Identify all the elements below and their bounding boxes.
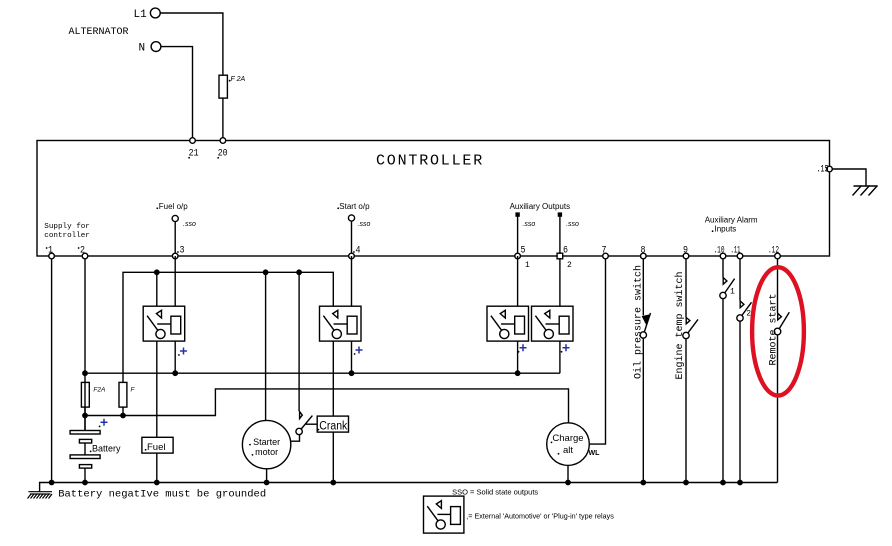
aux input 1 arm — [725, 279, 735, 293]
svg-text:,= External 'Automotive' or 'P: ,= External 'Automotive' or 'Plug-in' ty… — [466, 512, 614, 521]
junction ground battery — [83, 480, 87, 484]
remote start contact triangle — [778, 313, 782, 320]
svg-text:Starter: Starter — [253, 437, 280, 447]
svg-text:Crank: Crank — [319, 420, 347, 432]
fuse F2A — [219, 75, 227, 98]
svg-text:Supply for: Supply for — [44, 223, 90, 231]
svg-text:Oil pressure switch: Oil pressure switch — [633, 265, 645, 379]
terminal 21 — [190, 138, 196, 144]
junction ground terminal 1 — [49, 480, 53, 484]
fuse F (charge) — [119, 382, 127, 407]
svg-text:2: 2 — [80, 245, 85, 257]
junction ground aux2 — [738, 480, 742, 484]
svg-text:F: F — [131, 387, 136, 394]
plus mark K4 — [563, 344, 570, 351]
plus mark K2 — [356, 347, 363, 354]
oil pressure switch arm — [644, 313, 650, 332]
svg-text:controller: controller — [44, 232, 90, 240]
terminal 3 — [172, 253, 178, 259]
wire K1 coil to plus bus — [174, 341, 176, 373]
svg-text:.11: .11 — [731, 245, 741, 257]
junction ground starter — [264, 480, 268, 484]
svg-text:.12: .12 — [768, 245, 779, 257]
svg-text:8: 8 — [641, 245, 646, 257]
oil pressure switch arrow — [643, 315, 649, 323]
wire charge alt WL to terminal 7 — [589, 259, 605, 444]
starter motor M1 — [242, 420, 290, 468]
ground (top right) — [853, 186, 878, 196]
wire crank switch to crank label — [306, 423, 318, 425]
svg-text:CONTROLLER: CONTROLLER — [376, 153, 484, 170]
aux input 1 contact triangle — [723, 278, 727, 285]
terminal 11 — [737, 253, 743, 259]
junction ground temp switch — [684, 480, 688, 484]
engine temp switch contact triangle — [686, 318, 690, 324]
junction starter motor feed — [263, 270, 267, 274]
crank switch contact triangle — [300, 412, 303, 419]
wire remote start to ground bus — [777, 335, 779, 483]
charge alternator G1 — [547, 423, 590, 466]
svg-text:Inputs: Inputs — [715, 225, 737, 234]
junction plus bus at terminal2 wire — [83, 371, 87, 375]
svg-text:SSO = Solid state outputs: SSO = Solid state outputs — [452, 487, 538, 496]
svg-text:1: 1 — [730, 288, 735, 297]
wire oil pressure switch to ground bus — [642, 338, 644, 482]
relay K1 (fuel) — [143, 306, 185, 341]
svg-text:N: N — [139, 43, 146, 55]
fuse F2A (battery) — [81, 382, 89, 407]
svg-text:Battery: Battery — [92, 444, 121, 454]
svg-text:4: 4 — [356, 245, 361, 257]
remote start switch wire top — [777, 259, 779, 313]
crank switch pivot — [296, 428, 302, 434]
svg-text:F 2A: F 2A — [231, 76, 246, 83]
wire N to terminal 21 — [161, 47, 193, 141]
svg-text:Battery negatIve must be groun: Battery negatIve must be grounded — [58, 488, 266, 500]
wire terminal 15 to ground — [832, 169, 866, 186]
SSO output stub terminal 6 — [558, 213, 561, 216]
svg-text:Auxiliary Alarm: Auxiliary Alarm — [705, 216, 758, 225]
junction relay K1 switch feed — [155, 270, 159, 274]
svg-text:20: 20 — [218, 148, 228, 160]
junction plus bus K2 coil — [349, 371, 353, 375]
wire fuse F2A bottom — [84, 407, 86, 430]
svg-text:2: 2 — [567, 261, 572, 270]
alternator terminal L1 — [150, 8, 160, 18]
svg-text:.15: .15 — [817, 164, 829, 176]
wire K2 coil top from terminal 4 — [351, 256, 353, 306]
feed bus wire — [123, 272, 333, 382]
wire K4 coil to plus bus — [559, 341, 561, 373]
label supply for controller — [44, 223, 90, 240]
svg-text:Fuel o/p: Fuel o/p — [159, 202, 188, 211]
svg-text:Fuel: Fuel — [147, 442, 165, 453]
terminal 8 — [641, 253, 647, 259]
svg-text:.sso: .sso — [522, 221, 535, 228]
wire K3 coil top from terminal 5 — [517, 256, 519, 306]
svg-text:6: 6 — [563, 245, 568, 257]
crank label box — [317, 416, 348, 432]
terminal 4 — [349, 253, 355, 259]
terminal 20 — [220, 138, 226, 144]
junction ground charge alt — [566, 480, 570, 484]
svg-text:2: 2 — [746, 310, 751, 319]
red highlight ellipse (remote start) — [752, 267, 804, 395]
aux input 2 wire top — [739, 259, 741, 301]
wire sso stub to terminal 4 — [351, 221, 353, 256]
alternator terminal N — [151, 42, 161, 52]
engine temp switch pivot — [683, 332, 689, 338]
terminal 6 — [557, 253, 563, 259]
remote start arm — [779, 312, 789, 328]
SSO output stub terminal 3 — [172, 215, 178, 221]
wire engine temp switch to ground bus — [685, 339, 687, 483]
junction plus bus K1 coil — [173, 371, 177, 375]
wire starter to ground bus — [266, 469, 268, 483]
terminal 5 — [515, 253, 521, 259]
relay K4 (aux output 2) — [532, 306, 574, 341]
terminal 12 — [775, 253, 781, 259]
plus mark K1 — [180, 348, 187, 355]
wire sso stub to terminal 3 — [174, 222, 176, 256]
relay K2 (start) — [320, 306, 362, 341]
junction crank switch feed — [297, 270, 301, 274]
wire K1 switch to fuel solenoid — [156, 341, 158, 437]
junction battery bus fuse F — [121, 413, 125, 417]
relay K3 (aux output 1) — [487, 306, 529, 341]
terminal 9 — [683, 253, 689, 259]
aux input 2 arm — [742, 302, 752, 315]
wire K3 coil to plus bus — [517, 341, 519, 373]
aux input 1 wire top — [722, 259, 724, 278]
wire L1 to fuse F2A — [160, 13, 223, 75]
aux input 1 pivot — [720, 292, 726, 298]
plus mark battery — [101, 419, 108, 426]
svg-text:.sso: .sso — [183, 221, 196, 228]
oil pressure switch pivot — [640, 332, 646, 338]
remote start pivot — [774, 328, 781, 335]
svg-text:Auxiliary Outputs: Auxiliary Outputs — [510, 202, 570, 211]
crank switch arm — [301, 416, 312, 429]
junction ground crank — [331, 480, 335, 484]
wire aux input 1 to ground bus — [722, 299, 724, 483]
terminal 7 — [603, 253, 609, 259]
wire K1 coil top from terminal 3 — [174, 256, 176, 306]
controller box U1 — [37, 141, 830, 257]
svg-text:L1: L1 — [134, 9, 148, 21]
svg-text:1: 1 — [525, 261, 530, 270]
oil pressure switch wire top — [642, 259, 644, 316]
ground bus wire — [40, 483, 778, 492]
wire sso stub to terminal 6 — [559, 216, 561, 256]
wire crank to ground bus — [332, 432, 334, 482]
svg-text:F2A: F2A — [93, 387, 105, 394]
junction ground oil switch — [641, 480, 645, 484]
junction ground aux1 — [721, 480, 725, 484]
svg-text:9: 9 — [683, 245, 688, 257]
wire aux input 2 to ground bus — [739, 321, 741, 482]
plus bus wire (relay coils) — [85, 372, 560, 374]
svg-text:ALTERNATOR: ALTERNATOR — [69, 27, 129, 38]
svg-text:motor: motor — [255, 447, 278, 457]
wire fuel to ground bus — [156, 453, 158, 482]
fuel solenoid box — [142, 437, 173, 453]
wire terminal 2 to battery positive — [84, 259, 86, 431]
svg-text:Start o/p: Start o/p — [339, 202, 370, 211]
battery B1 — [70, 431, 100, 483]
terminal 2 — [82, 253, 88, 259]
terminal 1 — [49, 253, 55, 259]
wire starter to crank switch — [291, 435, 300, 442]
wire fuse to terminal 20 — [222, 98, 224, 140]
svg-text:Remote start: Remote start — [769, 293, 780, 365]
svg-text:1: 1 — [48, 245, 53, 257]
engine temp switch wire top — [685, 259, 687, 318]
aux input 2 pivot — [737, 315, 743, 321]
svg-text:.sso: .sso — [566, 221, 579, 228]
svg-text:3: 3 — [180, 245, 185, 257]
engine temp switch arm — [688, 319, 698, 333]
legend relay symbol — [424, 496, 464, 533]
junction battery bus at battery — [83, 413, 87, 417]
SSO output stub terminal 4 — [348, 215, 354, 221]
junction plus bus K3 coil — [515, 371, 519, 375]
wire K4 coil top from terminal 6 — [559, 259, 561, 306]
svg-text:5: 5 — [521, 245, 526, 257]
wire fuse F bottom to bus — [122, 407, 124, 415]
wire starter feed — [265, 272, 267, 420]
svg-text:Charge: Charge — [552, 433, 583, 444]
svg-text:.10: .10 — [714, 245, 725, 257]
plus mark K3 — [520, 344, 527, 351]
svg-text:WL: WL — [589, 450, 601, 457]
svg-text:.sso: .sso — [358, 221, 371, 228]
aux input 2 contact triangle — [740, 301, 744, 308]
wire terminal 1 to ground bus — [51, 259, 53, 483]
wire K2 coil to plus bus — [351, 341, 353, 373]
wire sso stub to terminal 5 — [517, 216, 519, 256]
label anchor dots — [46, 80, 714, 456]
wire charge alt to ground bus — [567, 465, 569, 482]
crank switch feed wire — [298, 272, 300, 411]
terminal 15 — [827, 166, 833, 172]
SSO output stub terminal 5 — [516, 213, 519, 216]
svg-text:7: 7 — [602, 245, 607, 257]
terminal 10 — [720, 253, 726, 259]
wire K2 switch to crank — [332, 341, 334, 416]
ground (bottom left) — [28, 492, 53, 499]
wire K1 switch top — [156, 272, 158, 306]
battery bus wire to charge alt — [85, 389, 569, 423]
junction ground fuel — [155, 480, 159, 484]
svg-text:21: 21 — [189, 148, 199, 160]
svg-text:alt: alt — [563, 445, 573, 456]
svg-text:Engine temp switch: Engine temp switch — [674, 271, 686, 379]
